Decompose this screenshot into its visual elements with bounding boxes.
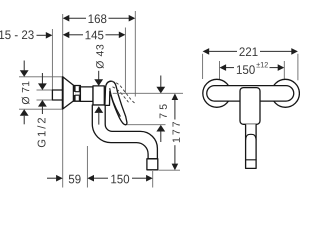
dimension G1/2 [37, 73, 47, 147]
dimension 168 [63, 14, 136, 23]
escutcheon cone [63, 77, 74, 109]
dimension label &#216;43 [94, 45, 103, 86]
body capsule [207, 86, 294, 102]
handle raised position dashed outer [112, 81, 137, 103]
dimension 150&#177;12 [220, 61, 285, 82]
dimension 177 [172, 93, 180, 170]
dimension &#216;71 [20, 61, 30, 125]
escutcheon face extension line (top) [62, 14, 64, 77]
dimension 15 - 23 [0, 30, 52, 39]
dimension 59 [47, 175, 81, 184]
wall stub union [52, 90, 62, 100]
handle raised position dashed inner [113, 87, 129, 103]
spout axis extension [127, 124, 166, 126]
cartridge housing [240, 88, 260, 125]
escutcheon face extension line (bottom) [62, 109, 64, 188]
escutcheon top extension [19, 76, 63, 78]
right escutcheon circle [271, 79, 299, 107]
dimension 75 [156, 76, 167, 143]
handle lever solid [105, 81, 127, 125]
escutcheon bottom extension [19, 108, 63, 110]
hex nut [74, 86, 81, 102]
leader through spout [94, 106, 103, 113]
escutcheon face edge [62, 77, 64, 109]
lever grip arch [246, 134, 257, 140]
dimension 150 [87, 175, 152, 184]
lever front [246, 124, 257, 168]
spout S-tube [92, 105, 157, 159]
lever separator [246, 159, 257, 161]
faucet body [93, 86, 104, 105]
aerator bottom extension [159, 169, 181, 171]
handle inner contour [110, 89, 120, 117]
cylinder housing [80, 87, 93, 102]
stub top tick [37, 89, 53, 91]
145 extension line [124, 28, 126, 94]
centerline extension over handle [113, 92, 183, 94]
spout end extension line [152, 171, 154, 188]
168 extension line [134, 11, 136, 97]
dimension 221 [203, 47, 298, 80]
dimension 145 [63, 31, 126, 40]
wall face extension line [51, 29, 53, 90]
stub bottom tick [37, 99, 53, 101]
left escutcheon circle [203, 79, 231, 107]
body front extension line [86, 146, 88, 188]
aerator [147, 159, 158, 170]
